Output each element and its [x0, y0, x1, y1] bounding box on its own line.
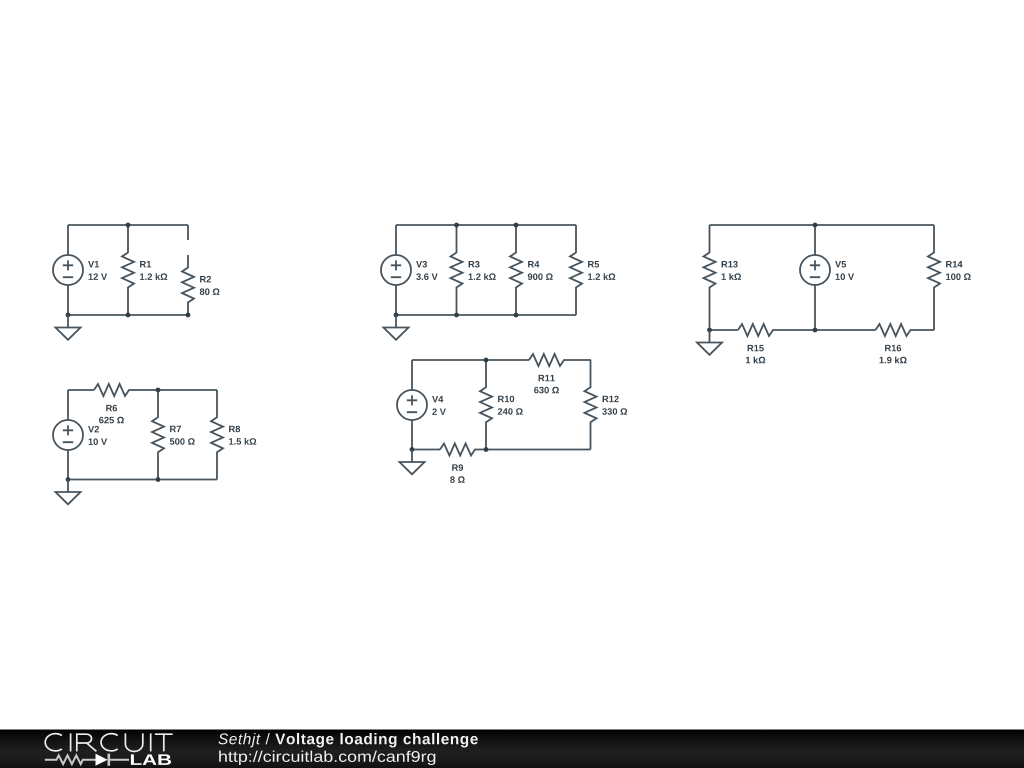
resistor R9 8 Ohm	[440, 444, 486, 483]
node junction bottom of V4	[410, 447, 415, 452]
wire bottom net of circuit 3	[396, 314, 576, 316]
node junction bottom of R2	[186, 313, 191, 318]
node junction bottom of R3	[454, 313, 459, 318]
resistor R15 1 kOhm	[738, 324, 780, 363]
resistor R13 1 kOhm	[704, 225, 742, 330]
resistor R16 1.9 kOhm	[876, 324, 935, 363]
voltage source V4 2 V	[397, 360, 446, 450]
footer title: Sethjt / Voltage loading challenge	[218, 733, 477, 748]
resistor R4 900 Ohm	[510, 225, 553, 315]
node junction bottom of V1	[66, 313, 71, 318]
node junction bottom of R10	[484, 447, 489, 452]
node junction bottom of V5	[813, 328, 818, 333]
resistor R3 1.2 kOhm	[451, 225, 496, 315]
node junction top of R4	[514, 223, 519, 228]
resistor R2 80 Ohm	[182, 255, 220, 315]
node junction bottom of R7	[156, 477, 161, 482]
voltage source V1 12 V	[53, 225, 107, 315]
wire top-left of circuit 2	[68, 389, 94, 391]
wire top net of circuit 3	[396, 224, 576, 226]
footer url: http://circuitlab.com/canf9rg	[219, 751, 435, 765]
ground symbol of circuit 4	[400, 450, 425, 475]
CircuitLab logo LAB	[131, 754, 171, 765]
wire bottom net of circuit 2	[68, 479, 217, 481]
wire bottom-middle of circuit 5	[780, 329, 876, 331]
node junction bottom of R1	[126, 313, 131, 318]
node junction top of R10	[484, 358, 489, 363]
node junction top of R1	[126, 223, 131, 228]
node junction top of R7	[156, 388, 161, 393]
node junction bottom of R13	[707, 328, 712, 333]
resistor R10 240 Ohm	[480, 360, 523, 450]
voltage source V2 10 V	[53, 390, 107, 480]
wire right side down to R12	[590, 359, 592, 361]
footer black bar	[0, 730, 1024, 768]
wire top-left of circuit 4	[412, 359, 529, 361]
wire top net of circuit 5	[710, 224, 935, 226]
resistor R1 1.2 kOhm	[122, 225, 167, 315]
resistor R14 100 Ohm	[928, 225, 971, 330]
wire bottom-left of circuit 5	[710, 329, 739, 331]
node junction bottom of V3	[394, 313, 399, 318]
wire top-right of circuit 2	[158, 389, 217, 391]
CircuitLab logo resistor and diode	[45, 754, 129, 766]
CircuitLab logo wordmark CIRCUIT	[45, 733, 172, 751]
ground symbol of circuit 3	[384, 315, 409, 340]
node junction bottom of R4	[514, 313, 519, 318]
wire top net of circuit 1	[68, 224, 188, 226]
voltage source V5 10 V	[800, 225, 854, 330]
ground symbol of circuit 5	[697, 330, 722, 355]
resistor R7 500 Ohm	[152, 390, 195, 480]
node junction top of R3	[454, 223, 459, 228]
voltage source V3 3.6 V	[381, 225, 438, 315]
ground symbol of circuit 2	[56, 480, 81, 505]
node junction top of V5	[813, 223, 818, 228]
ground symbol of circuit 1	[56, 315, 81, 340]
resistor R12 330 Ohm	[585, 360, 628, 450]
wire dangling stub to R2	[187, 225, 189, 240]
resistor R5 1.2 kOhm	[570, 225, 615, 315]
wire bottom net of circuit 1	[68, 314, 188, 316]
wire bottom-right of circuit 4	[486, 449, 591, 451]
resistor R8 1.5 kOhm	[211, 390, 256, 480]
resistor R6 625 Ohm	[94, 384, 158, 423]
wire bottom-left of circuit 4	[412, 449, 440, 451]
node junction bottom of V2	[66, 477, 71, 482]
resistor R11 630 Ohm	[529, 354, 591, 393]
